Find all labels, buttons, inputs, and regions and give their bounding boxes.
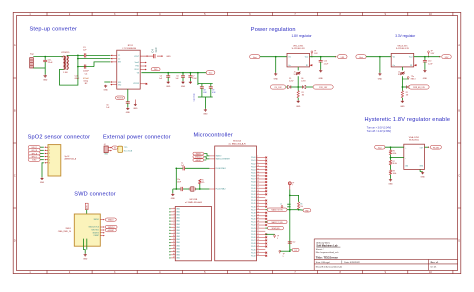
wire VS1 to ground: [104, 81, 110, 83]
junction output cap 1.8V: [320, 56, 322, 58]
ground below supercaps: [204, 109, 207, 112]
svg-text:VS1: VS1: [118, 82, 121, 84]
svg-text:SWDCLK/nRESET: SWDCLK/nRESET: [216, 159, 230, 161]
svg-text:P0-12: P0-12: [251, 194, 256, 196]
divider mid node wire to inverting input: [390, 155, 392, 161]
svg-text:GND: GND: [378, 78, 383, 80]
svg-text:GND: GND: [420, 176, 425, 178]
svg-text:11: 11: [257, 168, 259, 170]
svg-text:D: D: [14, 240, 16, 243]
svg-text:P0-10: P0-10: [251, 188, 256, 190]
svg-text:1:100: 1:100: [63, 72, 68, 74]
svg-text:27: 27: [257, 217, 259, 219]
wires ovals to MCU1A pins: [204, 154, 209, 156]
svg-text:supercap: supercap: [194, 92, 196, 101]
net label oval GND end of row: [303, 209, 311, 213]
svg-text:68nF: 68nF: [75, 78, 80, 80]
wire row3 up to SW pin: [94, 62, 110, 67]
svg-text:GND: GND: [400, 106, 405, 108]
svg-text:uC BMD-350-A-R: uC BMD-350-A-R: [185, 201, 203, 204]
resistor R4 load: [199, 184, 201, 189]
net label oval SWDIO right: [105, 218, 116, 221]
test point TP8b: [279, 250, 281, 253]
main output rail wire Vout: [141, 72, 206, 74]
svg-text:TP: TP: [277, 236, 279, 238]
divider resistor R6 620k: [390, 147, 392, 150]
svg-text:P0-03: P0-03: [251, 166, 256, 168]
capacitor C5 1uF: [167, 73, 169, 76]
wire row2 to IC pin C2: [78, 58, 111, 60]
svg-text:14: 14: [173, 247, 175, 249]
svg-text:Vin: Vin: [393, 57, 395, 59]
net label ovals SWD to MCU: [193, 152, 204, 155]
crystal load capacitor C13 1uF: [176, 167, 182, 169]
svg-text:VOUT: VOUT: [134, 56, 139, 58]
junction at VAUX: [77, 66, 79, 68]
U1 bottom pin wire to C6: [127, 89, 129, 102]
svg-text:SWDIO: SWDIO: [94, 219, 100, 221]
diode D right 1.8V: [298, 86, 302, 88]
svg-text:Vout: Vout: [253, 56, 257, 59]
svg-text:10: 10: [257, 165, 259, 167]
test point TP7 top: [288, 182, 291, 190]
svg-text:P0-20: P0-20: [251, 219, 256, 221]
svg-text:33: 33: [257, 236, 259, 238]
title block outline: [314, 239, 457, 271]
svg-text:GND: GND: [181, 86, 186, 88]
thermoelectric generator connector J1: [30, 58, 34, 68]
svg-text:SJ: SJ: [294, 74, 296, 76]
wire input to 3.3V regulator: [366, 56, 391, 58]
wire J1 bottom: [33, 67, 45, 69]
connector J3 SpO2 body: [48, 145, 61, 176]
svg-text:P0-21: P0-21: [251, 222, 256, 224]
net label oval SDWN_EN row: [268, 226, 284, 230]
svg-text:GND: GND: [296, 106, 301, 108]
junction C5: [167, 72, 169, 74]
test point enable 3.3V: [407, 77, 409, 80]
capacitor C1 22uF: [44, 57, 46, 60]
svg-text:TP: TP: [283, 254, 285, 256]
junction output cap 3.3V: [424, 56, 426, 58]
svg-text:TP: TP: [292, 182, 294, 184]
frame row ticks left edge: [13, 78, 16, 208]
svg-text:Rev: v1: Rev: v1: [431, 262, 440, 264]
svg-text:P0-16: P0-16: [251, 206, 256, 208]
svg-text:29: 29: [257, 224, 259, 226]
svg-text:SDWN_EN: SDWN_EN: [272, 228, 280, 230]
ground below C1: [43, 75, 47, 78]
no-connect X on 3.3V lower right pin: [414, 64, 416, 66]
wire primary bottom loop: [60, 67, 78, 86]
svg-text:nRESET: nRESET: [108, 230, 114, 232]
net label oval 3.3V output: [440, 56, 441, 58]
MCU1A left pins: [209, 156, 214, 189]
svg-text:SWD connector: SWD connector: [74, 191, 116, 197]
svg-text:GND: GND: [388, 184, 393, 186]
svg-text:P0-13: P0-13: [251, 197, 256, 199]
svg-text:GND: GND: [40, 182, 45, 184]
svg-text:R5: R5: [300, 203, 302, 205]
wire output of 3.3V: [414, 56, 441, 58]
net label oval SWDCLK right: [105, 225, 117, 228]
svg-text:PS_EN: PS_EN: [433, 147, 440, 149]
svg-text:35: 35: [257, 242, 259, 244]
svg-text:PG_1.8V: PG_1.8V: [275, 87, 283, 89]
svg-text:RESET: RESET: [94, 235, 99, 237]
svg-text:P0-30: P0-30: [251, 249, 256, 251]
svg-text:P0-0E/XTAL1: P0-0E/XTAL1: [216, 167, 226, 170]
ground symbol right of C6: [134, 100, 136, 104]
solder jumper below 1.8V regulator: [297, 67, 299, 71]
svg-text:100k: 100k: [393, 173, 397, 175]
microcontroller U2 MCU1B body: [175, 207, 211, 261]
svg-text:P0-22: P0-22: [251, 225, 256, 227]
svg-text:14: 14: [257, 177, 259, 179]
svg-text:GND: GND: [133, 108, 138, 110]
svg-text:21: 21: [257, 199, 259, 201]
polarity dots of T1: [62, 56, 63, 57]
wire MCU pin to MAX32_TX_EN oval: [265, 221, 267, 223]
svg-text:P0-14: P0-14: [251, 200, 256, 202]
svg-text:12: 12: [257, 171, 259, 173]
net label oval 1p8 near C12: [292, 248, 299, 251]
ground below U3: [421, 172, 424, 174]
svg-text:P0-25: P0-25: [251, 234, 256, 236]
svg-text:28: 28: [257, 220, 259, 222]
divider resistor R8 100k: [390, 165, 392, 170]
capacitor C6b 1uF: [182, 73, 184, 76]
svg-text:26: 26: [257, 214, 259, 216]
svg-text:P0-00: P0-00: [251, 157, 256, 159]
output capacitor 2.2uF of 3.3V: [424, 57, 426, 61]
svg-text:P0-01: P0-01: [251, 160, 256, 162]
net label oval PG_1.8V: [270, 85, 285, 89]
divider resistor R7 86.6k: [389, 160, 391, 165]
test point on 3.3V output: [428, 51, 430, 54]
net label oval nRESET right: [105, 229, 116, 232]
svg-text:Id: 1/1: Id: 1/1: [431, 267, 438, 269]
wire MCU pin to SDWN_EN oval: [265, 227, 267, 229]
wire RX row to resistor bottom: [287, 209, 299, 211]
pull-down resistor of 1.8V: [297, 87, 299, 91]
MCU1B left pin numbers: [173, 207, 175, 258]
svg-text:SWDCLK: SWDCLK: [195, 157, 201, 159]
svg-text:SWDIO: SWDIO: [108, 219, 114, 221]
net label oval Vout input hysteretic: [375, 145, 385, 149]
frame column ticks bottom edge: [47, 270, 453, 273]
ground below C6: [126, 107, 129, 110]
svg-text:37: 37: [257, 248, 259, 250]
svg-text:31: 31: [257, 230, 259, 232]
svg-text:VR2-3.3V1: VR2-3.3V1: [397, 45, 408, 47]
svg-text:GND/TDI: GND/TDI: [92, 232, 99, 234]
MCU1A right pin numbers: [257, 156, 259, 256]
U3 output wire: [425, 146, 430, 148]
svg-text:47k: 47k: [202, 182, 205, 184]
svg-text:GND: GND: [171, 198, 176, 200]
wire divider to ground: [390, 175, 392, 179]
label oval PGOOD lower: [116, 96, 125, 100]
svg-text:12: 12: [173, 241, 175, 243]
svg-text:P0-27: P0-27: [251, 240, 256, 242]
svg-text:VR1-1.8V1: VR1-1.8V1: [293, 45, 304, 47]
ground below SpO2 connector: [40, 177, 43, 180]
ground below C6b: [181, 81, 184, 84]
svg-text:GND: GND: [166, 86, 171, 88]
crystal load capacitor C14 10nF: [176, 188, 180, 190]
net label oval MAX32_RX_EN row: [267, 208, 287, 212]
svg-text:ASSM7202-A: ASSM7202-A: [65, 157, 77, 160]
svg-text:86.6k: 86.6k: [393, 163, 397, 165]
ferrite bead FB1: [118, 146, 123, 152]
svg-text:JTAG_SWD_20: JTAG_SWD_20: [58, 230, 71, 233]
connector SWD1 body: [74, 214, 100, 246]
U1 right pin stubs: [140, 63, 146, 70]
svg-text:34: 34: [257, 239, 259, 241]
svg-text:File: keyence-thad_sch: File: keyence-thad_sch: [316, 251, 339, 254]
svg-text:SWDIO: SWDIO: [216, 156, 222, 158]
svg-text:P0-18: P0-18: [251, 212, 256, 214]
svg-text:GND: GND: [319, 78, 324, 80]
net label oval on J4 pin1: [112, 146, 118, 149]
svg-text:VS2: VS2: [118, 85, 121, 87]
wire C1 bottom to ground: [44, 68, 46, 75]
capacitor C3 1uF series row1: [84, 53, 86, 57]
ground below C7: [189, 81, 192, 84]
wire input to 1.8V regulator: [260, 56, 287, 58]
svg-text:P0-09: P0-09: [251, 185, 256, 187]
svg-text:PWR_EN_3.3V: PWR_EN_3.3V: [413, 87, 426, 89]
svg-text:On: On: [288, 65, 290, 67]
svg-text:1mF: 1mF: [154, 47, 158, 53]
svg-text:GND: GND: [103, 90, 108, 92]
wire to resistor R5: [290, 195, 299, 202]
svg-text:GND: GND: [423, 78, 428, 80]
svg-text:19: 19: [257, 193, 259, 195]
svg-text:25: 25: [257, 211, 259, 213]
svg-text:External power connector: External power connector: [103, 135, 171, 141]
wire SWD to ground: [84, 246, 86, 253]
svg-text:Step-up converter: Step-up converter: [30, 26, 78, 32]
svg-text:C: C: [14, 174, 16, 177]
test point on 1.8V output: [311, 51, 313, 54]
svg-text:Vdd: Vdd: [405, 165, 408, 167]
svg-text:SJ: SJ: [398, 74, 400, 76]
svg-text:P0-05: P0-05: [251, 173, 256, 175]
supercapacitor C8: [201, 84, 203, 87]
diode D left 1.8V: [288, 85, 291, 88]
MCU1B pin names GND: [176, 208, 181, 259]
svg-text:13: 13: [173, 244, 175, 246]
svg-text:P0-15: P0-15: [251, 203, 256, 205]
frame column numbers: [29, 13, 432, 274]
svg-text:C1: C1: [118, 55, 120, 57]
vertical wire node VAUX: [77, 55, 79, 66]
diode D right 3.3V: [402, 86, 406, 88]
svg-text:SWDIO: SWDIO: [196, 153, 202, 155]
no-connect X on 1.8V lower right pin: [310, 64, 312, 66]
svg-text:Microcontroller: Microcontroller: [194, 132, 233, 138]
capacitor C2 series row3: [84, 65, 86, 69]
svg-text:470nF: 470nF: [83, 78, 90, 80]
svg-text:P0-24: P0-24: [251, 231, 256, 233]
svg-text:MCU1A: MCU1A: [233, 140, 241, 143]
svg-text:GND: GND: [83, 259, 88, 261]
ground drop on input of 1.8V: [275, 56, 277, 58]
svg-text:R1: R1: [406, 92, 408, 94]
svg-text:VSTOR: VSTOR: [133, 83, 140, 85]
supercap branch wires: [198, 73, 213, 84]
test point TP9: [265, 233, 274, 235]
svg-text:GND: GND: [43, 80, 48, 82]
svg-text:Hysteretic 1.8V regulator enab: Hysteretic 1.8V regulator enable: [365, 117, 451, 123]
svg-text:TP5: TP5: [124, 147, 127, 149]
svg-text:D: D: [458, 240, 460, 243]
svg-text:C10: C10: [428, 61, 431, 63]
svg-text:P0-28: P0-28: [251, 243, 256, 245]
svg-text:10: 10: [173, 235, 175, 237]
wire transformer secondary top right segment to IC pin C1: [86, 54, 111, 56]
power flag 1.8V above SWD: [85, 203, 88, 209]
svg-text:Sheet: /: Sheet: /: [316, 248, 324, 251]
net label oval Vout on rail: [206, 71, 215, 75]
svg-text:16: 16: [257, 184, 259, 186]
ground below C5: [167, 81, 170, 84]
svg-text:POR_1.8V: POR_1.8V: [319, 87, 328, 89]
solder jumper below 3.3V regulator: [401, 67, 403, 71]
svg-text:P0-32: P0-32: [251, 255, 256, 257]
supercapacitor C9: [210, 84, 212, 87]
ground drop on input of 3.3V: [379, 56, 381, 58]
svg-text:J4: J4: [104, 144, 106, 146]
svg-text:P0-06: P0-06: [251, 176, 256, 178]
MCU1A right side pins: [257, 158, 266, 256]
svg-text:LPR6235: LPR6235: [61, 52, 70, 54]
MCU1B ground pin junction dots: [169, 208, 170, 209]
wire output of 1.8V: [310, 56, 337, 58]
resistor R5 pull-up: [298, 202, 300, 209]
bottom wire to TP8b: [280, 250, 290, 252]
wire vertical bottom jog to 1p8 oval: [290, 249, 292, 251]
pull-down resistor of 3.3V: [401, 87, 403, 91]
frame row ticks right edge: [458, 78, 461, 208]
svg-text:Turn off < 2.4V (2.39V): Turn off < 2.4V (2.39V): [367, 130, 391, 133]
output capacitor 2.2uF of 1.8V: [320, 57, 322, 61]
svg-text:38: 38: [257, 251, 259, 253]
net label oval PS_EN output: [430, 145, 441, 149]
svg-text:GND: GND: [166, 56, 171, 58]
svg-text:VLDO: VLDO: [134, 69, 139, 71]
transformer T1 coupled inductor: [63, 56, 68, 70]
net label oval MAX32_TX_EN row: [267, 220, 287, 224]
enable row junction 1.8V: [297, 86, 299, 88]
svg-text:KiCad E.D.A. kicad (6.0.5-0): KiCad E.D.A. kicad (6.0.5-0): [316, 266, 342, 269]
pin arrows into U1 left pins: [111, 55, 112, 57]
svg-text:Ext_5VxB: Ext_5VxB: [124, 149, 133, 152]
wire MCU pin to MAX32_RX_EN oval: [265, 209, 267, 211]
svg-text:36: 36: [257, 245, 259, 247]
svg-text:16: 16: [173, 253, 175, 255]
svg-text:7: 7: [292, 185, 293, 187]
svg-text:P0-08: P0-08: [251, 182, 256, 184]
svg-text:Vout: Vout: [359, 56, 363, 59]
svg-text:C12: C12: [292, 242, 295, 244]
svg-text:15: 15: [257, 181, 259, 183]
svg-text:22: 22: [257, 202, 259, 204]
svg-text:SW: SW: [118, 62, 121, 64]
ground below crystal branch: [171, 193, 174, 196]
svg-text:22uF: 22uF: [48, 62, 53, 64]
MCU1A right pin names: [251, 157, 256, 257]
svg-text:620k: 620k: [393, 153, 397, 155]
U1 VSTOR pin stub with no-connect: [140, 83, 145, 85]
wire row3 VAUX caps: [78, 66, 94, 68]
svg-text:SpO2 sensor connector: SpO2 sensor connector: [28, 135, 91, 141]
U3 ground pin wire: [419, 169, 421, 171]
wire power flag to SWD box: [86, 210, 88, 214]
svg-text:GND: GND: [203, 114, 208, 116]
svg-text:P0-11: P0-11: [251, 191, 255, 193]
J4 pin stubs: [108, 148, 111, 151]
svg-text:1.8V regulator: 1.8V regulator: [292, 34, 313, 38]
svg-text:nRESET: nRESET: [195, 160, 201, 162]
svg-text:OUT: OUT: [420, 147, 423, 149]
svg-text:PGOOD: PGOOD: [117, 98, 124, 100]
MCU1B left ground pins: [171, 209, 176, 258]
svg-text:Vout: Vout: [209, 72, 213, 75]
svg-text:P0-26: P0-26: [251, 237, 256, 239]
microcontroller U2 MCU1A body: [215, 146, 257, 261]
wire crystal to ground: [173, 188, 177, 190]
frame column ticks top edge: [47, 12, 453, 15]
svg-text:SWO/TDO: SWO/TDO: [91, 230, 99, 232]
svg-text:VDA-1.8V1: VDA-1.8V1: [409, 136, 420, 139]
svg-text:Power regulation: Power regulation: [251, 27, 296, 33]
storage capacitor C4 1mF on VOUT: [140, 55, 162, 57]
ground below resistor 3.3V: [401, 98, 403, 100]
svg-text:On: On: [393, 65, 395, 67]
J3 pin stubs and arrows: [45, 147, 48, 163]
svg-text:24: 24: [257, 208, 259, 210]
net label oval PWR_EN_3.3V: [409, 85, 429, 89]
capacitor C7 2.2uF: [189, 73, 191, 76]
SWD right pin stubs: [100, 220, 104, 236]
svg-text:17: 17: [257, 187, 259, 189]
MCU1A no-connect marks: [265, 157, 267, 159]
svg-text:100nF: 100nF: [83, 71, 90, 73]
vertical wire crystal branch: [175, 168, 177, 189]
voltage regulator IC 3.3V body: [391, 53, 414, 67]
svg-text:P0-02: P0-02: [251, 163, 256, 165]
svg-text:Vout2: Vout2: [135, 61, 139, 64]
ground below SWD: [84, 254, 87, 257]
connector J4 external power body: [104, 146, 108, 153]
label oval PGOOD on PGD pin: [151, 68, 160, 71]
svg-text:R1: R1: [306, 65, 308, 67]
wire Vout oval to divider: [385, 146, 404, 148]
wire J1 top to transformer: [33, 56, 63, 58]
net label oval Vout input of 3.3V regulator: [356, 55, 366, 59]
svg-text:C2: C2: [118, 58, 120, 60]
net label oval POR_1.8V: [313, 85, 333, 89]
svg-text:P0-01/XTAL2: P0-01/XTAL2: [216, 188, 226, 191]
svg-text:P0-17: P0-17: [251, 209, 256, 211]
svg-text:P0-31: P0-31: [251, 252, 256, 254]
svg-text:R1: R1: [302, 92, 304, 94]
svg-text:R1: R1: [410, 65, 412, 67]
svg-text:P0-19: P0-19: [251, 215, 256, 217]
